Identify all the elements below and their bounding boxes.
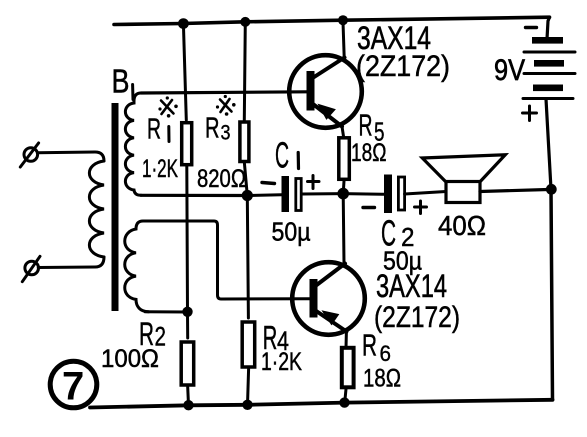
capacitor C2 (384, 175, 405, 214)
transformer B1 secondary upper winding (125, 93, 150, 195)
node junction top rail / R1 (178, 18, 189, 29)
wire R1 bottom to winding node (185, 167, 189, 312)
svg-text:(2Z172): (2Z172) (374, 301, 460, 334)
svg-text:R: R (362, 328, 377, 363)
svg-text:9V: 9V (494, 54, 525, 87)
svg-text:18Ω: 18Ω (363, 365, 401, 393)
wire R6 bottom to rail (345, 389, 346, 403)
wire Q1 emitter to R5 (342, 127, 344, 138)
transformer B1 core (112, 103, 119, 311)
input terminal lower (22, 256, 40, 281)
svg-text:3AX14: 3AX14 (376, 268, 447, 304)
svg-text:B: B (112, 63, 130, 100)
svg-text:R: R (147, 114, 161, 146)
wire C2 to speaker (405, 192, 446, 195)
wire top supply rail (114, 17, 550, 24)
wire input lower to transformer primary (38, 257, 104, 268)
wire speaker to right rail (480, 190, 548, 192)
asterisk mark R3 (216, 95, 236, 116)
battery plus sign (523, 106, 537, 121)
wire center tap to node A (141, 194, 247, 197)
node junction winding / R1 / R2 (182, 307, 192, 317)
transformer B1 secondary lower winding (125, 221, 152, 312)
transistor Q1 (289, 55, 362, 128)
wire node A to C1 (247, 193, 281, 197)
node A junction R3 / C1 / R4 / center tap (242, 190, 253, 201)
svg-text:18Ω: 18Ω (351, 139, 387, 167)
minus sign C2 (363, 206, 375, 209)
transformer B1 primary winding (89, 161, 104, 257)
wire Q1 collector to top rail (343, 22, 344, 58)
svg-text:R: R (359, 108, 373, 143)
wire R5 bottom to node B (342, 181, 346, 194)
wire R2 top (186, 312, 189, 338)
resistor R4 (242, 322, 255, 367)
node junction speaker / right rail (546, 184, 557, 195)
input terminal upper (20, 143, 38, 167)
node junction bottom rail / R6 (339, 397, 349, 407)
svg-text:(2Z172): (2Z172) (356, 50, 450, 83)
wire input upper to transformer primary (38, 152, 105, 161)
wire right rail down (551, 189, 553, 400)
svg-text:40Ω: 40Ω (438, 210, 486, 241)
svg-text:1·2K: 1·2K (261, 348, 302, 376)
svg-text:7: 7 (62, 365, 84, 409)
svg-text:50µ: 50µ (272, 217, 311, 247)
asterisk mark R1 (158, 96, 177, 117)
wire battery negative lead (547, 17, 550, 39)
wire node B to C2 (343, 192, 384, 196)
svg-text:3: 3 (221, 122, 231, 145)
wire Q1 base from secondary upper (141, 92, 307, 93)
svg-text:1·2K: 1·2K (142, 155, 178, 183)
wire bottom rail (90, 400, 553, 408)
resistor R6 (342, 348, 354, 388)
plus sign C2 (415, 201, 427, 214)
wire R4 top from node A (247, 196, 248, 319)
wire secondary lower top to Q2 base (150, 221, 310, 299)
wire R2 bottom (186, 387, 190, 405)
wire secondary lower bottom to R1/R2 node (145, 310, 188, 313)
svg-text:C: C (275, 135, 289, 176)
resistor R5 (339, 138, 350, 180)
capacitor C1 (282, 176, 302, 212)
resistor R1 (182, 123, 192, 165)
node junction top rail / R3 (240, 17, 250, 27)
wire battery positive lead to speaker node (546, 99, 551, 189)
svg-text:6: 6 (380, 341, 392, 366)
wire node B to Q2 collector (342, 194, 346, 264)
node junction bottom rail / R4 (242, 400, 252, 410)
minus sign C1 (262, 183, 275, 184)
svg-text:100Ω: 100Ω (101, 345, 159, 373)
node junction top rail / Q1 collector (338, 15, 348, 25)
wire R1 branch upper (183, 24, 186, 120)
resistor R3 (240, 122, 249, 162)
node junction bottom rail / R2 (183, 400, 193, 410)
speaker LS 40 ohm (422, 155, 505, 203)
figure number 7 (50, 361, 97, 408)
transistor Q2 (292, 262, 365, 335)
battery 9V (523, 37, 575, 99)
node B junction C1 / R5 / C2 / Q2 collector (337, 188, 349, 200)
wire R4 bottom (248, 369, 249, 405)
resistor R2 (181, 342, 194, 385)
wire R3 bottom to node A (244, 163, 247, 196)
wire R3 branch upper (244, 22, 245, 120)
svg-text:820Ω: 820Ω (197, 165, 246, 193)
svg-text:R: R (205, 113, 220, 145)
wire C1 to node B (303, 192, 344, 195)
battery minus sign (526, 26, 537, 29)
plus sign C1 (308, 176, 320, 189)
wire Q2 emitter to R6 (345, 332, 348, 349)
